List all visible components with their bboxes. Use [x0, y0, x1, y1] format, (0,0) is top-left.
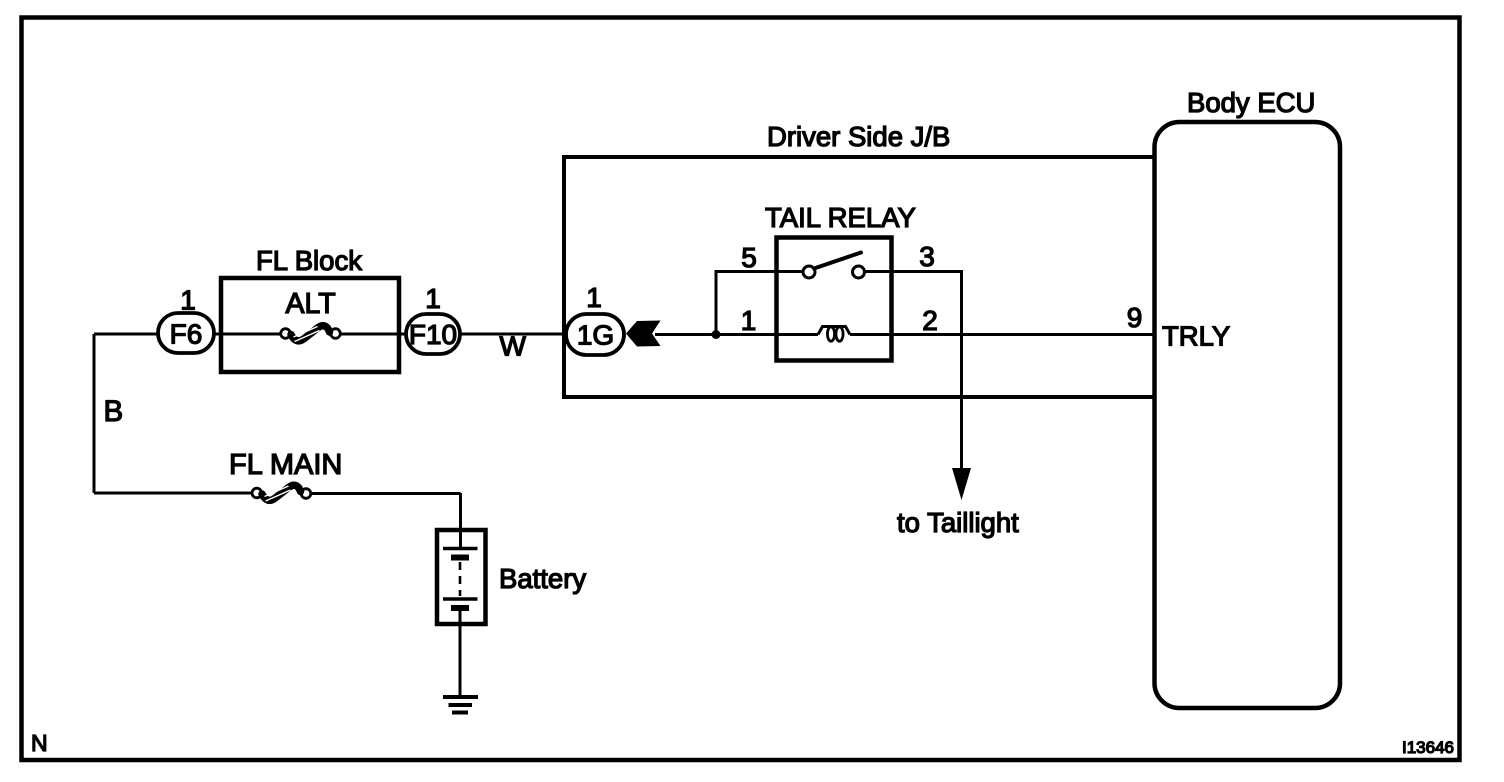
svg-text:1: 1 — [586, 282, 602, 313]
wire through FL Block left part — [214, 333, 282, 336]
wire main B+ feed left segment — [94, 333, 160, 336]
relay K1 TAIL RELAY box — [777, 238, 892, 361]
svg-text:TAIL RELAY: TAIL RELAY — [765, 202, 916, 233]
svg-text:5: 5 — [741, 242, 757, 273]
relay coil loop 1 — [827, 327, 834, 341]
relay switch contact pin 5 — [803, 266, 815, 278]
relay switch lever — [814, 253, 861, 269]
fuse ALT fusible link — [281, 326, 341, 342]
svg-text:FL MAIN: FL MAIN — [229, 449, 342, 481]
svg-text:F6: F6 — [170, 319, 203, 350]
battery BT1 box — [437, 530, 486, 624]
svg-text:FL Block: FL Block — [256, 245, 362, 276]
svg-text:F10: F10 — [409, 319, 457, 350]
connector F6 — [158, 313, 214, 353]
arrowhead to taillight — [952, 468, 971, 500]
svg-text:1: 1 — [741, 305, 757, 336]
wire battery to ground — [459, 611, 462, 697]
wire from arrow to relay coil — [655, 333, 818, 336]
ECU U1 Body ECU box — [1155, 122, 1341, 708]
connector F10 — [406, 314, 460, 354]
battery cell plate short 1 — [451, 555, 469, 561]
ground symbol — [443, 697, 478, 713]
fusible link block FL Block box — [221, 278, 399, 372]
svg-text:1: 1 — [180, 285, 196, 316]
wire to battery — [459, 493, 462, 548]
wire through FL Block right part — [339, 333, 406, 336]
wire FL MAIN horizontal right part — [310, 492, 461, 495]
svg-text:Battery: Battery — [499, 563, 586, 594]
wire W from F10 to 1G — [460, 333, 566, 336]
svg-text:N: N — [31, 730, 48, 756]
svg-text:B: B — [104, 395, 124, 428]
svg-text:3: 3 — [919, 241, 935, 272]
relay coil loop 2 — [836, 327, 843, 341]
connector arrow into J/B — [626, 321, 661, 347]
svg-text:TRLY: TRLY — [1162, 321, 1230, 352]
wire B branch vertical — [93, 334, 96, 493]
battery cell plate short 2 — [451, 605, 469, 611]
wire riser junction to pin 5 — [716, 272, 802, 335]
wire coil to Body ECU pin 9 — [850, 333, 1156, 336]
svg-text:to Taillight: to Taillight — [897, 507, 1019, 538]
fuse FL MAIN fusible link — [252, 485, 311, 501]
svg-text:Driver Side J/B: Driver Side J/B — [767, 121, 950, 152]
svg-text:1G: 1G — [577, 320, 614, 351]
wire pin 3 to taillight drop — [865, 272, 962, 471]
battery dashed link — [459, 562, 462, 596]
svg-text:9: 9 — [1127, 302, 1143, 333]
svg-text:I13646: I13646 — [1402, 738, 1454, 757]
junction node dot — [712, 330, 721, 339]
svg-text:1: 1 — [425, 283, 441, 314]
svg-text:Body ECU: Body ECU — [1187, 87, 1315, 118]
junction block J/B box Driver Side J/B — [564, 157, 1155, 397]
relay switch contact pin 3 — [853, 266, 865, 278]
battery cell plate long 2 — [443, 597, 478, 601]
connector 1G — [566, 314, 624, 355]
relay coil bump — [818, 327, 850, 335]
svg-text:W: W — [500, 331, 527, 362]
battery cell plate long 1 — [443, 547, 478, 551]
svg-text:ALT: ALT — [286, 288, 336, 320]
wire FL MAIN horizontal left part — [94, 492, 253, 495]
svg-text:2: 2 — [922, 305, 938, 336]
